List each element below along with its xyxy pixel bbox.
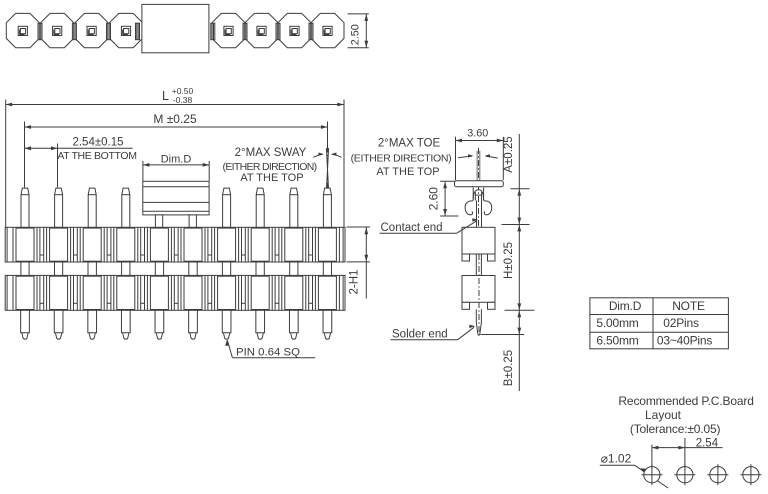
table: Dim.D / NOTE (590, 298, 729, 349)
contact centerline (dash-dot) (478, 148, 480, 228)
svg-text:M ±0.25: M ±0.25 (153, 112, 197, 126)
svg-text:2°MAX SWAY: 2°MAX SWAY (235, 147, 307, 159)
housing cell boundary A7 (241, 227, 243, 262)
housing cell face A4 (117, 228, 135, 261)
M extension line right (327, 122, 329, 149)
last pin centerline (dash-dot) (327, 147, 329, 222)
label PIN 0.64 SQ with leader (225, 340, 228, 346)
M extension line left (24, 122, 26, 188)
contact end extension tick (502, 224, 530, 226)
svg-text:B±0.25: B±0.25 (503, 350, 515, 386)
svg-text:2°MAX TOE: 2°MAX TOE (378, 138, 441, 150)
solder tail pin 9 (289, 310, 298, 332)
top view connecting bar R2 (276, 23, 280, 40)
solder tail pin 8 (256, 310, 265, 332)
top view break rectangle (strip interruption) (142, 4, 209, 52)
housing cell boundary A4 (140, 227, 142, 262)
solder tail pin 4 (121, 310, 130, 332)
svg-text:2.60: 2.60 (427, 187, 441, 211)
PCB hole 2 (crosshair circle) (677, 467, 693, 483)
upper pin 3 (above housing) (88, 188, 96, 227)
upper pin 10 (above housing) (323, 188, 331, 227)
Dim.D center block (polarization key) (143, 181, 209, 215)
housing cell boundary A9 (308, 227, 310, 262)
solder tail pin 2 (54, 310, 63, 332)
svg-text:(Tolerance:±0.05): (Tolerance:±0.05) (630, 422, 721, 436)
top view octagon cell L4 (110, 13, 143, 47)
contact spring lobe right (484, 201, 492, 215)
housing cell face B9 (285, 276, 303, 309)
pin segment between rows 9 (289, 262, 291, 275)
top view octagon cell R3 (278, 13, 311, 47)
top view octagon cell R2 (245, 13, 278, 47)
pin tip extension tick (481, 334, 525, 336)
housing cell boundary B2 (73, 275, 75, 310)
block leg left (155, 215, 162, 227)
housing cell face B10 (318, 276, 336, 309)
top view connecting bar L1 (38, 23, 42, 40)
housing cell face A7 (218, 228, 236, 261)
svg-text:-0.38: -0.38 (173, 95, 193, 105)
housing cell face A10 (318, 228, 336, 261)
block leg right (189, 215, 196, 227)
housing cell boundary A3 (106, 227, 108, 262)
dimension L +0.50/-0.38 (overall length) (6, 104, 344, 106)
solder tail pin 6 (189, 310, 198, 332)
front view housing row 2 outline (5, 275, 345, 310)
housing cell face B2 (50, 276, 68, 309)
housing cell boundary B9 (308, 275, 310, 310)
top view connecting bar R3 (309, 23, 313, 40)
pin toe envelope lines (476, 151, 478, 181)
pin segment between rows 5 (154, 262, 156, 275)
solder tail pin 7 (222, 310, 231, 332)
top view connecting bar at rect left (136, 23, 140, 40)
dimension H±0.25 (518, 225, 520, 311)
dimension M ±0.25 (pin span) (25, 126, 328, 128)
housing cell face B4 (117, 276, 135, 309)
svg-text:2.54±0.15: 2.54±0.15 (72, 137, 123, 149)
contact spring turret (472, 188, 474, 201)
top view connecting bar L3 (107, 23, 111, 40)
svg-text:NOTE: NOTE (672, 299, 705, 313)
svg-text:H±0.25: H±0.25 (503, 242, 515, 279)
housing cell face B1 (16, 276, 34, 309)
solder tail pin 3 (88, 310, 97, 332)
top view connecting bar at rect right (211, 23, 215, 40)
pin segment between rows 6 (188, 262, 190, 275)
housing cell face A2 (50, 228, 68, 261)
housing cell face A8 (251, 228, 269, 261)
pin segment between rows 4 (121, 262, 123, 275)
PCB hole 3 (crosshair circle) (710, 467, 726, 483)
L extension line left (5, 100, 7, 228)
toe angle leaders (458, 156, 472, 158)
housing bottom extension tick (505, 309, 535, 311)
housing cell boundary B3 (106, 275, 108, 310)
contact flange (top plate) (455, 181, 504, 187)
dimension 2.50 (top view height) (348, 13, 369, 15)
housing cell face A3 (83, 228, 101, 261)
L extension line right (343, 100, 345, 228)
svg-text:AT THE TOP: AT THE TOP (376, 166, 439, 178)
svg-text:2-H1: 2-H1 (349, 270, 361, 295)
svg-text:(EITHER DIRECTION): (EITHER DIRECTION) (351, 152, 452, 164)
top view octagon cell L1 (6, 13, 39, 47)
svg-text:2.50: 2.50 (349, 24, 361, 45)
PCB hole 4 (crosshair circle) (743, 467, 759, 483)
housing cell boundary B6 (207, 275, 209, 310)
top view octagon cell R1 (212, 13, 245, 47)
housing cell face A9 (285, 228, 303, 261)
upper pin 1 (above housing) (21, 188, 29, 227)
solder tail pin 5 (155, 310, 164, 332)
housing cell boundary B8 (274, 275, 276, 310)
svg-text:5.00mm: 5.00mm (596, 316, 638, 330)
last pin sway envelope lines (326, 148, 328, 189)
top view octagon cell R4 (311, 13, 344, 47)
pin segment between rows 8 (255, 262, 257, 275)
svg-text:Contact end: Contact end (381, 222, 443, 234)
svg-text:6.50mm: 6.50mm (596, 334, 638, 348)
front view housing row 1 outline (5, 227, 345, 262)
pin segment between rows 2 (54, 262, 56, 275)
svg-text:03~40Pins: 03~40Pins (657, 334, 712, 348)
pin segment between rows 3 (87, 262, 89, 275)
svg-text:AT THE TOP: AT THE TOP (240, 172, 303, 184)
svg-text:3.60: 3.60 (467, 128, 488, 140)
top view connecting bar L2 (72, 23, 76, 40)
housing cell boundary A5 (173, 227, 175, 262)
top view octagon cell L3 (75, 13, 108, 47)
housing cell boundary A8 (274, 227, 276, 262)
svg-text:Dim.D: Dim.D (609, 299, 642, 313)
svg-text:L: L (162, 89, 169, 103)
housing cell boundary A6 (207, 227, 209, 262)
housing cell face B6 (184, 276, 202, 309)
housing cell boundary A2 (73, 227, 75, 262)
pin shaft between rows (475, 261, 477, 276)
right dimension column: A±0.25 (511, 188, 530, 190)
upper pin 4 (above housing) (122, 188, 130, 227)
svg-text:Dim.D: Dim.D (161, 154, 192, 166)
housing cell face B8 (251, 276, 269, 309)
pin segment between rows 1 (20, 262, 22, 275)
upper pin 8 (above housing) (256, 188, 264, 227)
svg-text:Solder end: Solder end (392, 329, 448, 341)
svg-text:Recommended P.C.Board: Recommended P.C.Board (618, 394, 753, 408)
housing cell face A5 (150, 228, 168, 261)
housing cell boundary B4 (140, 275, 142, 310)
svg-text:PIN 0.64 SQ: PIN 0.64 SQ (236, 346, 300, 358)
side view housing row 2 (462, 276, 495, 303)
svg-text:AT THE BOTTOM: AT THE BOTTOM (57, 150, 136, 162)
PCB hole 1 (crosshair circle) (644, 467, 660, 483)
upper pin 2 (above housing) (55, 188, 63, 227)
dimension B±0.25 (518, 310, 520, 391)
dimension 2.60 (retention height) (440, 180, 458, 182)
top view octagon cell L2 (41, 13, 74, 47)
dimension 2.54±0.15 (25, 147, 133, 149)
upper pin 9 (above housing) (290, 188, 298, 227)
solder tail pin 1 (21, 310, 30, 332)
housing cell boundary B1 (39, 275, 41, 310)
housing cell boundary B5 (173, 275, 175, 310)
svg-text:Layout: Layout (645, 408, 682, 422)
svg-text:02Pins: 02Pins (663, 316, 699, 330)
contact shaft (476, 201, 478, 228)
side view housing row 1 (462, 227, 495, 254)
sway angle arcs at last pin (313, 154, 322, 157)
pin segment between rows 7 (221, 262, 223, 275)
housing cell face A1 (16, 228, 34, 261)
contact spring lobe left (465, 201, 473, 215)
solder tail pin 10 (323, 310, 332, 332)
dimension 2-H1 (row height) (347, 226, 371, 228)
housing cell face B5 (150, 276, 168, 309)
housing cell face A6 (184, 228, 202, 261)
housing cell boundary A1 (39, 227, 41, 262)
top view connecting bar R1 (243, 23, 247, 40)
housing cell face B7 (218, 276, 236, 309)
upper pin 7 (above housing) (223, 188, 231, 227)
pin segment between rows 10 (322, 262, 324, 275)
svg-text:A±0.25: A±0.25 (503, 136, 515, 172)
housing cell face B3 (83, 276, 101, 309)
solder pin below housing (476, 309, 481, 335)
svg-text:⌀1.02: ⌀1.02 (601, 452, 632, 466)
housing cell boundary B7 (241, 275, 243, 310)
